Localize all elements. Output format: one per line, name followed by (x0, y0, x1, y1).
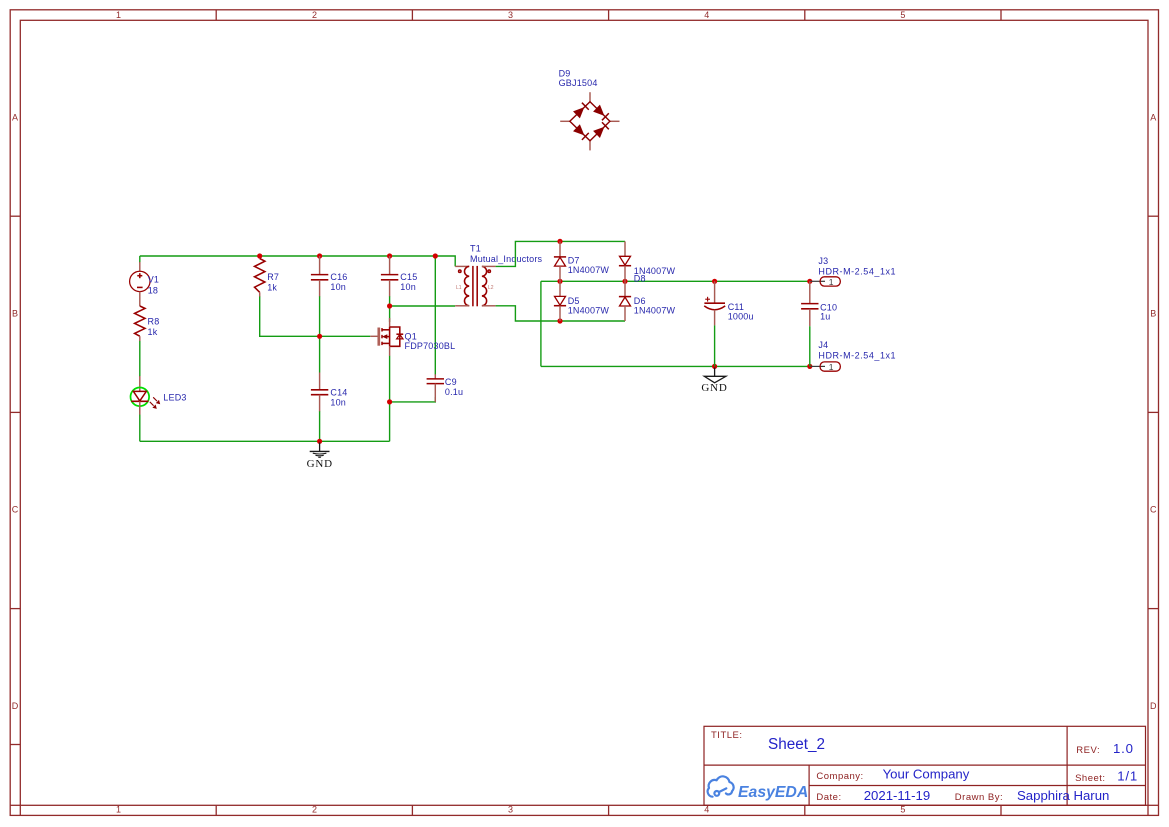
svg-text:Mutual_Inductors: Mutual_Inductors (470, 254, 543, 264)
svg-text:1u: 1u (820, 312, 830, 322)
wire T1 top right to diode top rail (496, 241, 625, 266)
D9 internal diode bottom-left (573, 124, 589, 140)
junction dot source C9 rail (387, 399, 392, 404)
svg-text:1: 1 (829, 362, 834, 372)
wire C14 bottom to bottom rail (319, 411, 321, 441)
svg-text:C11: C11 (728, 302, 744, 312)
D9 internal diode top-left (573, 103, 589, 119)
junction dot gate rail C16 (317, 334, 322, 339)
svg-text:1k: 1k (267, 283, 277, 293)
wire C15 bottom to rail (389, 296, 391, 306)
wire T1 bottom right to diode bottom rail (496, 306, 625, 321)
capacitor C14 (311, 373, 328, 412)
diode D7 (554, 241, 566, 281)
D9 internal diode top-right (593, 105, 609, 121)
polarized capacitor C11 (704, 281, 725, 325)
junction dot top rail C16 (317, 253, 322, 258)
svg-text:REV:: REV: (1076, 745, 1100, 756)
svg-text:1000u: 1000u (728, 311, 754, 321)
svg-text:A: A (1150, 113, 1156, 123)
svg-text:GND: GND (307, 458, 333, 470)
title block logo cell divider (808, 765, 810, 805)
wire C16 column segments (319, 296, 321, 373)
junction dot top rail C9 (433, 253, 438, 258)
wire Q1 source down (389, 356, 391, 442)
column tick marks top (216, 10, 1001, 20)
row tick marks right (1148, 216, 1159, 608)
svg-text:C: C (1150, 505, 1157, 515)
svg-text:D: D (1150, 701, 1157, 711)
junction dot top rail C15 (387, 253, 392, 258)
svg-text:2021-11-19: 2021-11-19 (864, 788, 930, 803)
wire rail C15 to T1 bottom (390, 305, 456, 307)
svg-text:Your Company: Your Company (883, 767, 970, 782)
svg-text:1k: 1k (148, 327, 158, 337)
svg-text:T1: T1 (470, 244, 481, 254)
svg-text:J4: J4 (818, 340, 828, 350)
svg-text:1.0: 1.0 (1113, 741, 1134, 756)
svg-text:C9: C9 (445, 377, 457, 387)
wire Q1 source to C9 bottom (390, 397, 436, 402)
svg-text:1N4007W: 1N4007W (568, 306, 610, 316)
svg-text:5: 5 (900, 805, 905, 815)
svg-text:1: 1 (829, 277, 834, 287)
wire C10 bottom (809, 326, 811, 366)
svg-text:GND: GND (701, 382, 727, 394)
svg-text:3: 3 (508, 805, 513, 815)
voltage source V1 (130, 262, 150, 306)
svg-text:LED3: LED3 (163, 392, 186, 402)
wire top rail (140, 256, 455, 266)
capacitor C15 (381, 256, 398, 296)
junction dot C11 top (712, 279, 717, 284)
svg-text:C15: C15 (400, 272, 417, 282)
svg-text:1/1: 1/1 (1117, 768, 1138, 783)
svg-text:3: 3 (508, 10, 513, 20)
wire C11 bottom (714, 325, 716, 366)
frame bottom strip extensions (10, 805, 1158, 815)
svg-text:Date:: Date: (816, 792, 841, 803)
transformer T1 (455, 266, 495, 306)
svg-text:C16: C16 (330, 272, 347, 282)
ruler labels right A-D (1150, 113, 1157, 711)
svg-text:C14: C14 (330, 387, 347, 397)
svg-text:HDR-M-2.54_1x1: HDR-M-2.54_1x1 (818, 350, 896, 360)
svg-text:Sheet:: Sheet: (1075, 773, 1105, 784)
svg-text:4: 4 (704, 805, 709, 815)
svg-text:Company:: Company: (816, 771, 863, 782)
title block row divider 2 (809, 785, 1145, 787)
svg-text:18: 18 (148, 285, 158, 295)
resistor R7 (255, 259, 265, 297)
diode D5 (554, 281, 566, 321)
connector J4 (811, 362, 841, 371)
svg-text:5: 5 (900, 10, 905, 20)
svg-text:R7: R7 (267, 272, 279, 282)
svg-text:TITLE:: TITLE: (711, 730, 743, 741)
wire diode middle rail (541, 280, 810, 282)
junction dot D5 bottom (557, 318, 562, 323)
svg-text:R8: R8 (148, 317, 160, 327)
svg-text:FDP7030BL: FDP7030BL (405, 341, 456, 351)
svg-text:1: 1 (116, 805, 121, 815)
svg-text:B: B (12, 309, 18, 319)
svg-text:D8: D8 (634, 273, 646, 283)
MOSFET Q1 (370, 318, 403, 356)
wire C9 top column (434, 256, 436, 375)
svg-text:0.1u: 0.1u (445, 387, 463, 397)
wire lower output rail (541, 365, 810, 367)
title block REV column divider (1066, 726, 1068, 805)
EasyEDA logo cloud (708, 776, 734, 796)
svg-text:A: A (12, 113, 18, 123)
wire left column V1 top (139, 256, 141, 263)
svg-text:Drawn By:: Drawn By: (955, 792, 1003, 803)
svg-text:2: 2 (312, 805, 317, 815)
capacitor C10 (801, 281, 818, 326)
connector J3 (811, 277, 841, 286)
wire middle rail left drop (540, 281, 542, 366)
svg-text:C: C (12, 505, 19, 515)
LED LED3 (131, 376, 161, 415)
ground symbol GND left (310, 443, 330, 458)
svg-text:2: 2 (312, 10, 317, 20)
wire bottom rail (140, 440, 390, 442)
resistor R8 (135, 306, 145, 341)
junction dot bottom rail GND (317, 439, 322, 444)
svg-text:D7: D7 (568, 256, 580, 266)
diode D6 (619, 281, 631, 321)
svg-text:Sapphira Harun: Sapphira Harun (1017, 788, 1109, 803)
junction dot J3 rail (807, 279, 812, 284)
wire R7 bottom to gate rail (260, 296, 371, 336)
svg-text:EasyEDA: EasyEDA (738, 784, 808, 801)
junction dot C11 bottom (712, 364, 717, 369)
junction dot D7 D5 middle (557, 279, 562, 284)
svg-text:10n: 10n (400, 282, 416, 292)
diode D8 (619, 241, 631, 281)
svg-text:10n: 10n (330, 398, 346, 408)
junction dot J4 rail (807, 364, 812, 369)
svg-text:B: B (1150, 309, 1156, 319)
junction dot C15 T1 rail (387, 303, 392, 308)
wire left column LED3 to bottom rail (139, 406, 141, 441)
svg-text:4: 4 (704, 10, 709, 20)
D9 internal diode bottom-right (593, 122, 609, 138)
column tick marks bottom (216, 805, 1001, 815)
svg-text:D9: D9 (559, 69, 571, 79)
wire Q1 drain from rail (389, 306, 391, 322)
junction dot D7 top (557, 239, 562, 244)
svg-text:D: D (12, 701, 19, 711)
svg-text:L2: L2 (488, 285, 494, 291)
svg-text:1N4007W: 1N4007W (634, 306, 676, 316)
ruler labels top 1-5 (116, 10, 905, 20)
svg-text:Sheet_2: Sheet_2 (768, 736, 825, 753)
svg-text:J3: J3 (818, 256, 828, 266)
wire left column R8 to LED3 (139, 341, 141, 378)
ruler labels bottom 1-5 (116, 805, 905, 815)
title block outline (704, 726, 1146, 805)
svg-text:GBJ1504: GBJ1504 (559, 78, 598, 88)
svg-text:L1: L1 (456, 285, 462, 291)
row tick marks left (10, 216, 20, 744)
svg-text:1: 1 (116, 10, 121, 20)
ruler labels left A-D (12, 113, 19, 711)
svg-text:HDR-M-2.54_1x1: HDR-M-2.54_1x1 (818, 266, 896, 276)
capacitor C16 (311, 256, 328, 296)
title block row divider 1 (704, 764, 1146, 766)
svg-text:V1: V1 (148, 275, 159, 285)
bridge rectifier D9 (560, 92, 619, 150)
capacitor C9 (427, 374, 444, 402)
svg-text:10n: 10n (330, 282, 346, 292)
svg-text:1N4007W: 1N4007W (568, 265, 610, 275)
ground symbol GND right (704, 368, 726, 383)
junction dot top rail R7 (257, 253, 262, 258)
junction dot D8 D6 middle (622, 279, 627, 284)
